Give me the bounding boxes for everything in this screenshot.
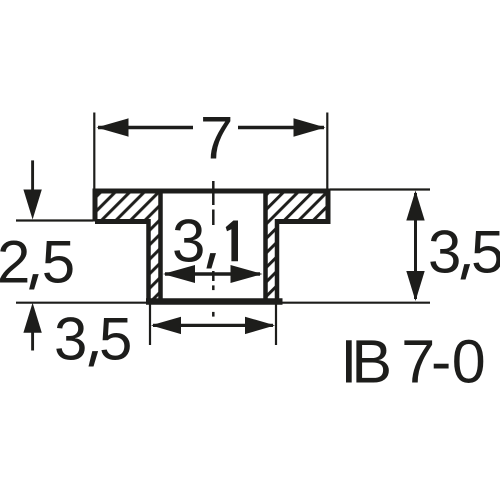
- svg-text:3: 3: [172, 207, 205, 274]
- svg-text:0: 0: [452, 328, 486, 396]
- svg-text:7: 7: [200, 104, 233, 171]
- svg-text:5: 5: [471, 218, 500, 285]
- svg-text:5: 5: [99, 305, 132, 372]
- svg-text:-: -: [431, 328, 451, 396]
- svg-text:5: 5: [42, 228, 75, 295]
- svg-text:3: 3: [54, 305, 87, 372]
- svg-text:3: 3: [428, 218, 461, 285]
- svg-text:B: B: [351, 328, 392, 396]
- svg-text:2: 2: [0, 228, 30, 295]
